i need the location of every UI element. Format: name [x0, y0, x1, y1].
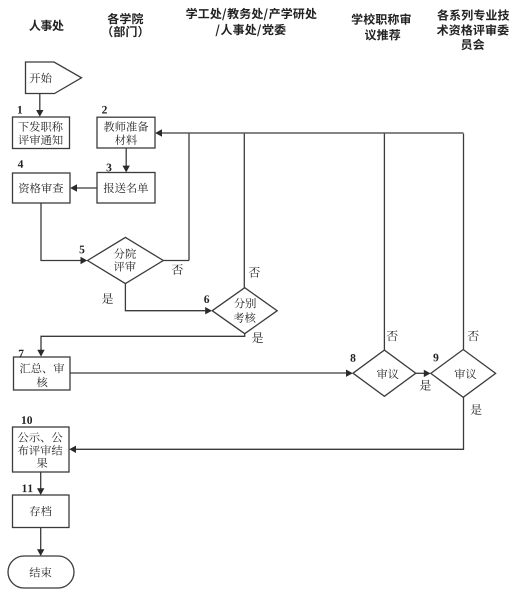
step number 3	[107, 164, 112, 172]
box4 label 资格审查	[19, 183, 63, 193]
lane header 学校职称 line2	[365, 29, 400, 40]
process box 2 教师准备材料	[97, 117, 155, 148]
lane header 各学院 line2	[109, 26, 141, 38]
step number 4	[18, 160, 23, 168]
step number 6	[204, 295, 209, 303]
box1 label line2 评审通知	[18, 135, 62, 145]
label 是 (diamond9)	[471, 404, 482, 415]
wire riser from diamond9-no to feedback line	[463, 134, 465, 350]
decision diamond 6 分别考核	[212, 288, 277, 334]
box1 label line1 下发职称	[18, 121, 62, 131]
lane header 各学院 line1	[108, 13, 144, 24]
label 是 (diamond6)	[252, 332, 263, 343]
process box 1 下发职称评审通知	[13, 117, 70, 149]
step number 7	[19, 350, 24, 358]
diamond6 label line2 考核	[234, 312, 256, 322]
box10 label line2 布评审结	[18, 445, 63, 455]
wire diamond6-yes to box7 + arrowhead	[41, 334, 245, 351]
box11 label 存档	[30, 506, 52, 516]
process box 11 存档	[13, 495, 70, 528]
wire box11 to end + arrowhead	[40, 528, 42, 550]
process box 4 资格审查	[13, 173, 71, 203]
label 是 (diamond8-9)	[420, 380, 431, 391]
process box 3 报送名单	[97, 173, 155, 204]
label 否 (diamond5)	[172, 264, 183, 275]
wire start to box1 + arrowhead	[39, 94, 41, 111]
step number 11	[23, 485, 33, 493]
decision diamond 8 审议	[353, 350, 416, 396]
start label 开始	[30, 73, 52, 83]
wire box4 to diamond5 + arrowhead	[41, 203, 81, 261]
start terminator (pentagon) 开始	[26, 62, 82, 94]
wire diamond5-yes to diamond6 + arrowhead	[125, 284, 206, 311]
wire box7 to diamond8 + arrowhead	[70, 372, 347, 374]
step number 2	[102, 106, 107, 114]
box2 label line2 材料	[115, 135, 137, 145]
diamond5 label line2 评审	[114, 261, 136, 271]
step number 9	[433, 354, 438, 362]
lane header 各系列 line3	[461, 39, 484, 50]
end label 结束	[30, 567, 52, 577]
diamond9 label 审议	[455, 369, 477, 379]
decision diamond 9 审议	[431, 350, 496, 398]
box2 label line1 教师准备	[104, 121, 149, 131]
step number 1	[18, 106, 22, 114]
process box 10 公示、公布评审结果	[13, 427, 70, 472]
lane header 学工处 line1	[186, 8, 316, 20]
wire box10 to box11 + arrowhead	[40, 472, 42, 489]
lane header 学校职称 line1	[352, 13, 411, 24]
wire feedback into box2 (loop return line) + arrowhead	[162, 132, 464, 134]
wire box2 to box3 + arrowhead	[125, 148, 127, 166]
label 是 (diamond5)	[102, 293, 113, 304]
box7 label line2 核	[37, 377, 48, 387]
lane header 各系列 line2	[437, 24, 509, 35]
step number 8	[351, 354, 356, 362]
label 否 (diamond6)	[249, 267, 260, 278]
process box 7 汇总、审核	[14, 357, 71, 390]
diamond8 label 审议	[377, 369, 399, 379]
box10 label line3 果	[37, 458, 48, 468]
label 否 (diamond9)	[468, 330, 479, 341]
wire diamond5-no to riser	[163, 260, 189, 262]
step number 10	[22, 416, 32, 424]
lane header 学工处 line2	[215, 24, 285, 36]
box10 label line1 公示、公	[18, 432, 63, 442]
wire riser from diamond6-no to feedback line	[243, 134, 245, 288]
end terminator 结束	[8, 556, 74, 588]
lane header 各系列 line1	[437, 9, 509, 20]
wire diamond9-yes to box10 + arrowhead	[75, 397, 463, 449]
lane header 人事处	[29, 20, 63, 31]
diamond5 label line1 分院	[114, 248, 136, 258]
label 否 (diamond8)	[387, 330, 398, 341]
decision diamond 5 分院评审	[88, 237, 164, 283]
box3 label 报送名单	[104, 183, 148, 193]
wire diamond8-yes to diamond9 + arrowhead	[416, 372, 425, 374]
wire riser from diamond8-no to feedback line	[383, 134, 385, 350]
diamond6 label line1 分别	[234, 298, 256, 308]
wire box3 to box4 + arrowhead	[76, 187, 97, 189]
step number 5	[80, 246, 85, 254]
wire riser from diamond5-no to feedback line	[188, 134, 190, 261]
box7 label line1 汇总、审	[20, 363, 64, 373]
